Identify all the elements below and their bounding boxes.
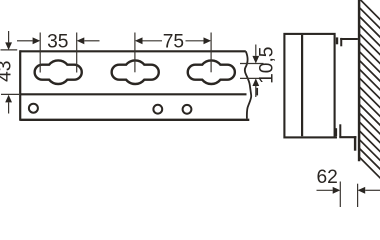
- svg-text:35: 35: [47, 31, 68, 52]
- svg-text:62: 62: [317, 167, 338, 188]
- svg-text:43: 43: [0, 61, 16, 82]
- svg-text:75: 75: [163, 31, 184, 52]
- svg-text:10,5: 10,5: [257, 47, 278, 84]
